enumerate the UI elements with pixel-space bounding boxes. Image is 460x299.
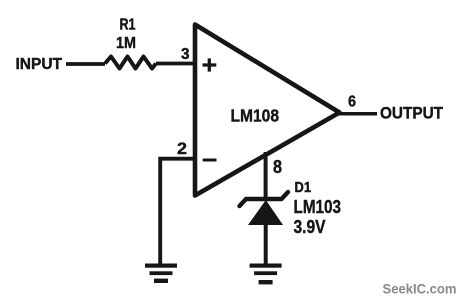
svg-text:INPUT: INPUT xyxy=(16,56,63,73)
svg-text:3: 3 xyxy=(181,46,190,63)
svg-text:2: 2 xyxy=(177,139,187,158)
svg-text:LM108: LM108 xyxy=(231,106,280,126)
svg-text:LM103: LM103 xyxy=(294,197,342,217)
svg-text:R1: R1 xyxy=(120,17,136,34)
svg-text:3.9V: 3.9V xyxy=(294,217,326,237)
svg-text:8: 8 xyxy=(273,157,282,177)
svg-text:SeekIC.com: SeekIC.com xyxy=(383,280,457,296)
svg-text:D1: D1 xyxy=(295,179,312,196)
svg-text:OUTPUT: OUTPUT xyxy=(380,104,444,123)
svg-text:1M: 1M xyxy=(116,35,136,52)
svg-text:6: 6 xyxy=(348,94,356,111)
